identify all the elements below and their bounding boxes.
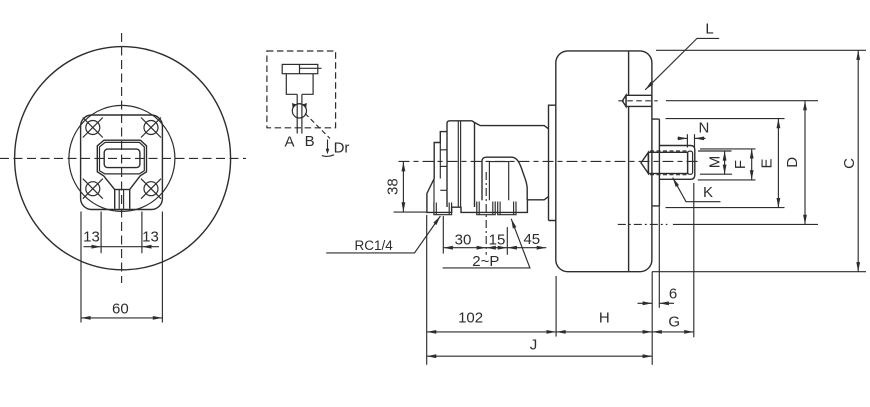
stud centerline (618, 100, 657, 102)
stud L (622, 95, 652, 106)
dimension G (652, 331, 694, 333)
front view vertical centerline (121, 33, 123, 283)
outer body circle (15, 47, 231, 270)
port drain (434, 203, 452, 215)
stem inner lines (118, 190, 120, 209)
bolt hole bottom-right (141, 179, 161, 199)
detail stem line A (296, 94, 298, 133)
drum body (556, 51, 652, 272)
detail body (286, 74, 313, 95)
svg-text:A: A (284, 134, 294, 151)
bolt hole bottom-left (83, 179, 103, 199)
svg-text:102: 102 (458, 310, 483, 327)
threaded rod (648, 152, 687, 173)
dimension D (804, 101, 806, 225)
dimension 45 (507, 247, 546, 249)
drum joint line (628, 51, 630, 272)
dimension F (751, 149, 753, 180)
valve block (482, 157, 527, 200)
svg-text:M: M (706, 156, 723, 169)
dimension H (556, 331, 652, 333)
drum top extension to C (656, 49, 866, 51)
pump body (475, 123, 549, 200)
boss ring on face (652, 119, 660, 206)
detail cap mid line (300, 67, 322, 69)
E bottom extension (666, 207, 785, 209)
svg-text:2~P: 2~P (472, 253, 499, 270)
bottom extension drum left (555, 276, 557, 337)
svg-text:L: L (705, 20, 713, 37)
bottom extension shaft end (693, 183, 695, 337)
bottom extension drum right (651, 272, 653, 365)
svg-text:6: 6 (669, 285, 677, 302)
svg-text:38: 38 (385, 178, 402, 195)
rotation arrow arc (293, 104, 306, 109)
thread crest dashed lines (650, 150, 688, 152)
svg-text:H: H (599, 310, 610, 327)
extension line 13 right (141, 212, 143, 254)
svg-text:N: N (698, 120, 709, 137)
detail circle (292, 104, 306, 118)
svg-text:K: K (703, 184, 713, 201)
adapter ring (549, 105, 556, 220)
boss circle (69, 105, 175, 211)
dimension E (777, 119, 779, 208)
2~P leader (443, 219, 530, 268)
dimension M (724, 151, 726, 174)
svg-text:30: 30 (455, 232, 472, 249)
Dr dashed leader (305, 113, 330, 138)
M top extension (698, 150, 732, 152)
dimension 15 (486, 247, 507, 249)
N extension left (686, 134, 688, 147)
extension line plate right (161, 212, 163, 323)
svg-text:60: 60 (112, 301, 129, 318)
shaft sleeve (659, 146, 694, 180)
L label leader (645, 38, 719, 89)
dimension 6 arrows (638, 302, 653, 304)
svg-text:Dr: Dr (334, 140, 350, 157)
head octagon inner (100, 142, 145, 174)
svg-text:13: 13 (83, 229, 100, 246)
detail stem line B (301, 94, 303, 133)
F bottom extension (698, 179, 756, 181)
head octagon outer with neck and stem outline (97, 140, 146, 209)
F top extension (700, 148, 756, 150)
K label leader (673, 178, 721, 202)
svg-text:C: C (841, 158, 858, 169)
port P2 (498, 202, 516, 215)
bottom extension line left (426, 215, 428, 365)
dimension 60 line (81, 317, 162, 319)
M bottom extension (700, 173, 732, 175)
detail view dashed box (267, 51, 336, 128)
svg-text:15: 15 (489, 232, 506, 249)
svg-text:B: B (305, 133, 315, 150)
svg-text:F: F (732, 160, 749, 169)
38 bottom extension (394, 211, 427, 213)
RC1/4 leader (326, 216, 440, 253)
pump cylinder (447, 121, 475, 207)
cylinder joint lines (457, 121, 459, 207)
rod end cap (688, 151, 693, 174)
neck shoulder line (115, 189, 130, 191)
D bottom pitch line dash-dot (618, 223, 668, 225)
pump step block outer (434, 132, 447, 179)
extension 30 left (442, 216, 444, 254)
valve inner bore (489, 162, 508, 201)
extension line 13 left (100, 212, 102, 254)
port P1 (477, 202, 495, 215)
svg-text:45: 45 (523, 231, 540, 248)
D top extension (666, 100, 818, 102)
side view main centerline (399, 160, 702, 162)
dimension 38 (402, 162, 404, 212)
E top extension (666, 118, 785, 120)
shaft cone tip (641, 152, 648, 173)
svg-text:13: 13 (142, 229, 159, 246)
center hub rectangle (104, 149, 140, 168)
mounting plate (81, 115, 163, 210)
pump step block lines (440, 149, 447, 151)
N dimension arrows (678, 137, 688, 139)
extension 15 right (506, 227, 508, 255)
bolt hole top-left (83, 118, 103, 138)
drum bottom extension to C (652, 271, 866, 273)
dimension 13-13 line (84, 246, 102, 248)
bolt hole top-right (141, 118, 161, 138)
detail cap divider (299, 64, 301, 73)
front view horizontal centerline (0, 157, 246, 159)
pump foot (427, 179, 528, 213)
detail cap rectangle (282, 64, 318, 73)
svg-text:J: J (530, 337, 538, 354)
dimension J (427, 355, 653, 357)
Dr down arrow symbol (327, 140, 329, 152)
N extension right (694, 134, 696, 147)
D bottom extension (673, 223, 818, 225)
extension line plate left (80, 212, 82, 323)
svg-text:RC1/4: RC1/4 (354, 238, 393, 253)
dimension 102 (427, 331, 556, 333)
dimension 30 (443, 247, 486, 249)
svg-text:E: E (759, 158, 776, 168)
svg-text:D: D (784, 157, 801, 168)
bottom extension boss face (658, 206, 660, 308)
port centerline (485, 172, 487, 255)
dimension C (857, 50, 859, 271)
svg-text:G: G (668, 314, 680, 331)
foot front edge (433, 179, 435, 204)
